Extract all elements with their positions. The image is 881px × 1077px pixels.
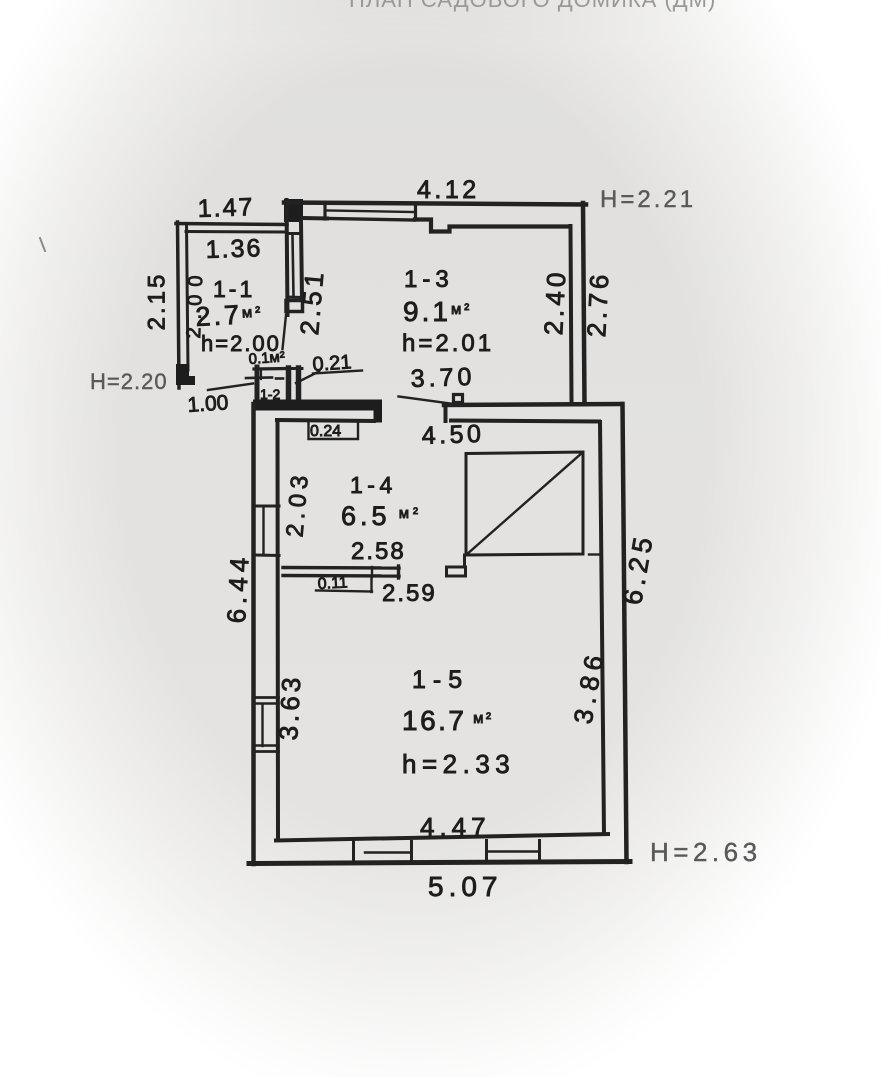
west inner wall line	[276, 420, 281, 840]
staircase tick to east wall	[589, 553, 601, 555]
window W3 (1-4 west) top tick	[254, 505, 279, 508]
window W6 middle line	[488, 850, 538, 852]
partition wall 1-4/1-5 upper line	[283, 566, 399, 570]
leader line for 0.21	[296, 372, 319, 384]
window W5 middle line	[365, 851, 410, 853]
building west wall bar right of doorway	[296, 368, 302, 403]
middle wall bar end cap	[374, 400, 383, 423]
window W4 inner top tick	[256, 702, 279, 704]
right wall 1-3 inner line	[571, 226, 572, 401]
partition wall divider tick	[371, 567, 373, 577]
south outer wall	[249, 862, 630, 864]
0.21 underline	[313, 371, 362, 374]
svg-text:1.36: 1.36	[205, 234, 263, 264]
svg-text:h=2.33: h=2.33	[402, 749, 515, 779]
partition wall end cap	[397, 566, 400, 578]
svg-text:1.47: 1.47	[197, 193, 255, 223]
svg-text:1.00: 1.00	[187, 391, 229, 417]
window W1 bottom tick	[287, 296, 301, 300]
svg-text:3.70: 3.70	[410, 363, 476, 393]
svg-text:9.1м²: 9.1м²	[403, 296, 472, 327]
building west wall bar left of doorway	[286, 368, 292, 403]
window W2 middle line	[327, 211, 414, 213]
lobby 1-2 door dash a	[260, 370, 262, 379]
top wall inner line with chimney notch	[415, 220, 570, 232]
main left wall inner line	[301, 222, 302, 300]
annex 1-1 top wall outer line	[176, 224, 287, 225]
svg-text:5.07: 5.07	[428, 871, 503, 902]
svg-text:1-3: 1-3	[404, 266, 454, 293]
svg-text:H=2.63: H=2.63	[650, 837, 762, 867]
svg-text:ПЛАН САДОВОГО ДОМИКА (ДМ): ПЛАН САДОВОГО ДОМИКА (ДМ)	[349, 0, 716, 12]
middle wall thick bar (south of 1-2/1-3)	[253, 400, 381, 411]
main left wall top corner block	[284, 199, 303, 222]
lobby 1-2 door dash c	[276, 377, 283, 380]
east outer wall	[623, 404, 627, 862]
window W2 (top wall) left jamb	[323, 204, 326, 219]
staircase step box	[447, 567, 466, 576]
svg-text:2.40: 2.40	[538, 268, 571, 336]
window W5 right jamb	[410, 842, 413, 861]
middle wall right outer line	[444, 404, 622, 405]
annex 1-1 left wall inner line	[187, 224, 189, 370]
window W6 right jamb	[538, 841, 541, 861]
svg-text:0.24: 0.24	[310, 423, 341, 440]
middle wall right cap	[444, 405, 448, 421]
right wall 1-3 outer line	[583, 203, 585, 404]
0.11 bracket underline	[316, 591, 372, 592]
doorway head joining west wall bars	[285, 367, 302, 370]
staircase foot stub	[463, 555, 466, 566]
lobby 1-2 top line	[254, 367, 287, 371]
svg-text:2.03: 2.03	[281, 469, 314, 538]
svg-text:0.21: 0.21	[312, 351, 352, 376]
niche box 0.24 outline	[309, 422, 359, 439]
east inner wall line	[600, 422, 604, 834]
svg-text:2.59: 2.59	[382, 580, 437, 607]
window W4 inner bottom tick	[256, 744, 279, 746]
svg-text:6.44: 6.44	[221, 552, 255, 624]
svg-text:4.12: 4.12	[417, 176, 480, 204]
annex bottom-left corner block	[176, 364, 195, 385]
svg-text:H=2.20: H=2.20	[90, 369, 168, 394]
window W2 bottom line	[327, 219, 414, 221]
svg-text:0.11: 0.11	[317, 574, 348, 593]
annex 1-1 top wall inner line	[186, 230, 287, 234]
room 1-4 north inner line	[277, 420, 374, 421]
svg-text:1-5: 1-5	[412, 666, 469, 694]
svg-text:2.58: 2.58	[351, 538, 406, 565]
partition wall lower line	[283, 574, 399, 578]
middle wall right inner line	[451, 421, 599, 422]
window W5 (south) left jamb	[352, 842, 355, 861]
top wall 1-3 outer line	[284, 203, 586, 205]
window W4 (1-5 west) outer top tick	[253, 696, 279, 699]
lobby 1-2 door dash b	[246, 376, 272, 379]
stray pen speck left edge	[40, 238, 45, 251]
window W4 mullion	[261, 705, 263, 746]
door swing at 1-4 doorway	[399, 397, 451, 404]
window W1 sill box	[286, 301, 303, 312]
main left wall outer line	[287, 200, 288, 315]
svg-text:2.51: 2.51	[294, 267, 330, 336]
window W1 (left wall 1-3) top tick	[287, 232, 301, 235]
svg-text:1-2: 1-2	[260, 386, 280, 402]
door post square	[454, 395, 463, 403]
staircase outline	[466, 452, 583, 555]
svg-text:4.47: 4.47	[420, 812, 491, 842]
west outer wall (lower section)	[251, 404, 256, 864]
svg-text:16.7 м²: 16.7 м²	[402, 705, 493, 736]
window W2 right jamb	[414, 205, 417, 220]
svg-text:2.00: 2.00	[183, 267, 207, 339]
lobby 1-2 left wall	[255, 367, 260, 404]
window W6 (south) left jamb	[485, 841, 488, 861]
window W1 middle mullion	[293, 236, 294, 296]
svg-text:1-1: 1-1	[213, 276, 255, 302]
svg-text:4.50: 4.50	[421, 420, 485, 450]
door leaf 1-1/1-3	[283, 315, 287, 349]
staircase diagonal	[466, 453, 583, 556]
window W3 bottom tick	[254, 554, 279, 558]
annex 1-1 left wall outer line	[178, 222, 180, 388]
svg-text:0.1м²: 0.1м²	[248, 349, 285, 368]
south inner wall line	[276, 834, 608, 841]
svg-text:3.63: 3.63	[273, 673, 306, 741]
svg-text:2.76: 2.76	[581, 270, 614, 338]
svg-text:6.5 м²: 6.5 м²	[341, 501, 422, 531]
top wall inner line left segment	[303, 216, 327, 221]
svg-text:1-4: 1-4	[350, 472, 397, 498]
window W4 outer bottom tick	[253, 750, 279, 753]
svg-text:2.15: 2.15	[143, 272, 170, 331]
svg-text:h=2.01: h=2.01	[402, 330, 494, 357]
window W3 mullion	[262, 508, 264, 553]
0.11 bracket vertical	[370, 578, 372, 592]
svg-text:H=2.21: H=2.21	[600, 186, 696, 213]
leader line for 1.00	[208, 384, 253, 391]
